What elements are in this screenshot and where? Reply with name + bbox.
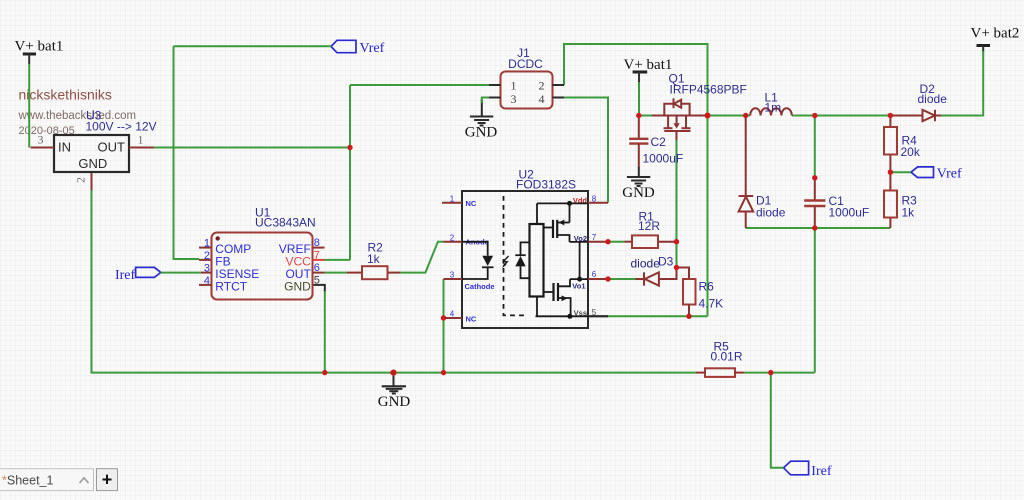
- svg-text:2: 2: [74, 177, 88, 183]
- J1 pin 1: [489, 84, 501, 86]
- svg-text:1: 1: [138, 133, 144, 147]
- svg-text:2: 2: [450, 233, 455, 242]
- junction D2 / R4 node: [888, 113, 893, 118]
- svg-text:100V --> 12V: 100V --> 12V: [86, 120, 157, 134]
- U1 pin 8 VREF: [313, 247, 325, 249]
- wire node A to J1 pin1: [350, 84, 489, 86]
- svg-text:8: 8: [314, 237, 320, 249]
- wire Iref tap down to flag: [771, 373, 784, 468]
- svg-text:3: 3: [450, 271, 455, 280]
- junction V+bat1 / C2 node: [636, 113, 641, 118]
- wire U2 Vss rail to drain-node vertical: [588, 315, 708, 317]
- net flag Vref (right, R4/R3 divider): [911, 167, 962, 182]
- wire J1 pin4 to U2 Vdd: [564, 98, 608, 203]
- U2 internal bottom MOSFET: [543, 279, 570, 316]
- svg-text:V+ bat1: V+ bat1: [15, 39, 64, 55]
- resistor R5 0.01R: [696, 340, 744, 377]
- title text www.thebackshed.com: [18, 110, 137, 122]
- wire Iref flag to U1 ISENSE: [161, 272, 201, 274]
- svg-text:1: 1: [204, 238, 210, 250]
- U2 pin 2 Anode: [444, 233, 489, 246]
- svg-text:7: 7: [592, 233, 597, 242]
- U1 pin 2 FB: [199, 259, 212, 261]
- resistor R4 20k: [884, 116, 921, 173]
- svg-text:12R: 12R: [638, 219, 660, 233]
- junction C1 pin top: [812, 175, 817, 180]
- svg-text:RTCT: RTCT: [215, 280, 247, 294]
- Q1 body diode: [664, 104, 673, 116]
- wire U3 GND down to bottom rail: [92, 172, 697, 373]
- svg-text:diode: diode: [756, 206, 786, 220]
- svg-text:6: 6: [592, 270, 597, 279]
- svg-text:diode: diode: [631, 257, 661, 271]
- add sheet + button: [97, 469, 118, 491]
- U1 pin 1 COMP: [199, 247, 212, 249]
- junction Q1 drain node: [705, 113, 711, 119]
- svg-text:C2: C2: [651, 135, 667, 149]
- wire U2 cathode/NC down to bottom rail: [443, 279, 445, 373]
- svg-text:1000uF: 1000uF: [829, 206, 870, 220]
- U2 pin 3 Cathode: [444, 271, 495, 291]
- diode D3: [631, 255, 674, 286]
- resistor R6 4.7K: [683, 279, 723, 316]
- svg-text:Vo1: Vo1: [572, 281, 585, 290]
- junction C1 branch top: [812, 113, 817, 118]
- U2 pin 8 Vdd: [573, 195, 608, 205]
- svg-text:IRFP4568PBF: IRFP4568PBF: [670, 83, 747, 97]
- svg-text:GND: GND: [78, 156, 107, 171]
- junction U2 pin4 node: [441, 315, 446, 320]
- svg-text:Vref: Vref: [937, 167, 962, 182]
- wire C1 branch from top rail: [814, 116, 816, 178]
- svg-text:GND: GND: [622, 185, 655, 201]
- junction GND tap / bottom rail: [390, 370, 396, 376]
- power flag V+ bat1 (above C2): [624, 57, 673, 82]
- junction node A (U3 out / J1 / VCC): [347, 145, 352, 150]
- wire R2 to U2 anode (with diagonal): [400, 242, 443, 273]
- wire U1 GND pin5 down to bottom rail: [313, 285, 325, 373]
- svg-text:diode: diode: [918, 92, 948, 106]
- junction U1 GND / bottom rail: [322, 370, 327, 375]
- capacitor C2 1000uF: [629, 116, 683, 168]
- svg-text:5: 5: [314, 274, 320, 286]
- svg-text:UC3843AN: UC3843AN: [255, 216, 316, 230]
- power flag V+ bat2 (top right): [971, 26, 1020, 53]
- Q1 channel/gate: [667, 116, 669, 128]
- U2 pin 6 Vo1: [572, 270, 608, 290]
- svg-text:V+ bat1: V+ bat1: [624, 57, 673, 73]
- U2 internal Vdd rail: [537, 201, 588, 224]
- capacitor C1 1000uF: [804, 178, 869, 228]
- diode D1: [739, 116, 786, 229]
- svg-text:V+ bat2: V+ bat2: [971, 26, 1020, 42]
- op-amp/controller U1 UC3843AN: [199, 206, 325, 300]
- U1 pin 6 OUT: [313, 272, 325, 274]
- svg-text:NC: NC: [466, 314, 477, 323]
- junction Vref divider node: [888, 170, 893, 175]
- svg-text:1k: 1k: [902, 206, 916, 220]
- wire D3 right to R6 node: [659, 268, 689, 280]
- svg-text:8: 8: [592, 195, 597, 204]
- svg-text:NC: NC: [466, 199, 477, 208]
- wire Vref vertical to U1 FB: [174, 46, 200, 259]
- wire V+bat1 down to U3 IN: [28, 64, 30, 147]
- net flag Vref (top): [331, 40, 385, 56]
- svg-text:FOD3182S: FOD3182S: [516, 178, 576, 192]
- wire VCC to U1 pin7: [325, 259, 351, 261]
- wire Vref node to flag: [890, 171, 911, 173]
- svg-text:DCDC: DCDC: [508, 57, 543, 71]
- svg-text:5: 5: [592, 308, 597, 317]
- svg-text:D3: D3: [658, 255, 674, 269]
- svg-text:4.7K: 4.7K: [699, 297, 724, 311]
- svg-text:1m: 1m: [765, 101, 782, 115]
- ground symbol GND (bottom rail): [378, 373, 411, 410]
- junction U2 Vo2 / R1: [605, 239, 610, 244]
- power flag V+ bat1 (top left): [15, 39, 64, 65]
- svg-text:2: 2: [204, 250, 210, 262]
- junction R1 right / Q1 gate: [674, 239, 679, 244]
- optocoupler U2 FOD3182S: [462, 168, 588, 329]
- sheet tab bar: [0, 469, 94, 491]
- svg-text:7: 7: [314, 249, 320, 261]
- junction D3 / R6: [674, 265, 679, 270]
- wire node A vertical (J1 pin1 / U1 VCC): [349, 85, 351, 260]
- ground symbol GND (C2): [622, 167, 655, 202]
- resistor R1 12R: [625, 210, 677, 249]
- svg-text:0.01R: 0.01R: [711, 350, 743, 364]
- resistor R2 1k: [347, 240, 400, 279]
- svg-text:4: 4: [204, 275, 210, 287]
- U2 pin 5 Vss: [574, 308, 608, 318]
- wire U2 Vo1 to D3: [608, 278, 636, 280]
- J1 pin 3: [489, 97, 501, 99]
- junction Iref tap / bottom rail: [768, 370, 773, 375]
- junction C1 bottom / lower rail: [812, 225, 817, 230]
- svg-text:*Sheet_1: *Sheet_1: [2, 473, 53, 487]
- U1 pin 3 ISENSE: [201, 272, 212, 274]
- svg-text:Vref: Vref: [360, 41, 385, 56]
- svg-text:1k: 1k: [367, 252, 381, 266]
- wire J1 pin3 to GND: [482, 98, 489, 104]
- wire drain node down to Vss rail: [707, 116, 709, 317]
- junction U2 cathode / bottom rail: [441, 370, 446, 375]
- junction R6 bottom / Vss rail: [686, 314, 691, 319]
- svg-text:3: 3: [38, 133, 44, 147]
- U2 internal LED: [462, 242, 494, 279]
- svg-text:1: 1: [450, 195, 455, 204]
- diode D2: [890, 82, 947, 121]
- wire main top rail segments: [639, 115, 891, 117]
- net flag Iref (bottom right): [784, 461, 832, 479]
- svg-text:1: 1: [511, 79, 517, 93]
- svg-text:GND: GND: [465, 125, 498, 141]
- transistor Q1 IRFP4568PBF: [652, 72, 747, 132]
- J1 pin 2: [553, 84, 565, 86]
- resistor R3 1k: [884, 172, 917, 228]
- wire J1 pin2 up and over to drain node: [564, 44, 708, 116]
- svg-text:4: 4: [450, 310, 455, 319]
- U3 pin 1 (OUT): [129, 147, 154, 149]
- wire U1 OUT to R2: [325, 272, 348, 274]
- inductor L1 1m: [750, 91, 792, 116]
- U1 pin 7 VCC: [313, 259, 325, 261]
- svg-text:2: 2: [539, 79, 545, 93]
- svg-text:OUT: OUT: [98, 140, 126, 155]
- wire bottom rail right of R5: [744, 228, 815, 373]
- U2 internal output node Vo2/Vo1: [570, 242, 588, 282]
- svg-text:3: 3: [511, 92, 517, 106]
- connector J1 DCDC: [489, 46, 564, 109]
- U2 internal Vss rail: [536, 297, 589, 319]
- svg-text:+: +: [102, 470, 113, 490]
- svg-text:3: 3: [204, 263, 210, 275]
- svg-text:Iref: Iref: [115, 268, 136, 283]
- svg-text:Iref: Iref: [811, 464, 832, 479]
- U2 internal photodiode: [515, 242, 529, 278]
- wire V+bat1 stem to C2 node: [638, 82, 640, 116]
- svg-text:IN: IN: [58, 140, 71, 155]
- svg-text:R6: R6: [699, 280, 715, 294]
- junction U2 Vo1 / D3: [605, 276, 610, 281]
- wire Vref flag horizontal: [174, 45, 332, 47]
- U2 internal top MOSFET: [543, 203, 588, 242]
- svg-text:4: 4: [539, 92, 545, 106]
- wire D2 cathode to V+bat2: [941, 51, 983, 116]
- title text nickskethisniks: [19, 87, 112, 103]
- title text 2020-08-05: [19, 125, 75, 137]
- U2 pin 4 NC: [444, 310, 477, 324]
- U1 pin 4 RTCT: [199, 284, 212, 286]
- wire U2 Vo2 to R1: [608, 241, 625, 243]
- svg-text:20k: 20k: [901, 145, 921, 159]
- svg-text:GND: GND: [284, 280, 311, 294]
- ground symbol GND (J1 pin3): [465, 99, 498, 141]
- wire U3 OUT to node A: [154, 147, 350, 149]
- U2 internal driver block: [530, 224, 544, 297]
- U3 pin 3 (IN): [31, 147, 55, 149]
- svg-text:Cathode: Cathode: [465, 282, 495, 291]
- U2 isolation dashed line: [504, 196, 527, 315]
- U2 pin 7 Vo2: [574, 233, 608, 243]
- svg-text:6: 6: [314, 262, 320, 274]
- wire lower rail D1/C1/R3: [746, 227, 891, 229]
- U2 pin 1 NC: [442, 195, 477, 209]
- net flag Iref (left, to U1 ISENSE): [115, 267, 161, 282]
- J1 pin 4: [553, 97, 565, 99]
- U2 photon arrow: [502, 256, 509, 268]
- svg-text:nickskethisniks: nickskethisniks: [19, 87, 112, 103]
- svg-text:1000uF: 1000uF: [643, 152, 684, 166]
- wire Q1 gate down to R1 right node: [676, 131, 678, 268]
- svg-text:GND: GND: [378, 394, 411, 410]
- junction D1 top node: [743, 113, 748, 118]
